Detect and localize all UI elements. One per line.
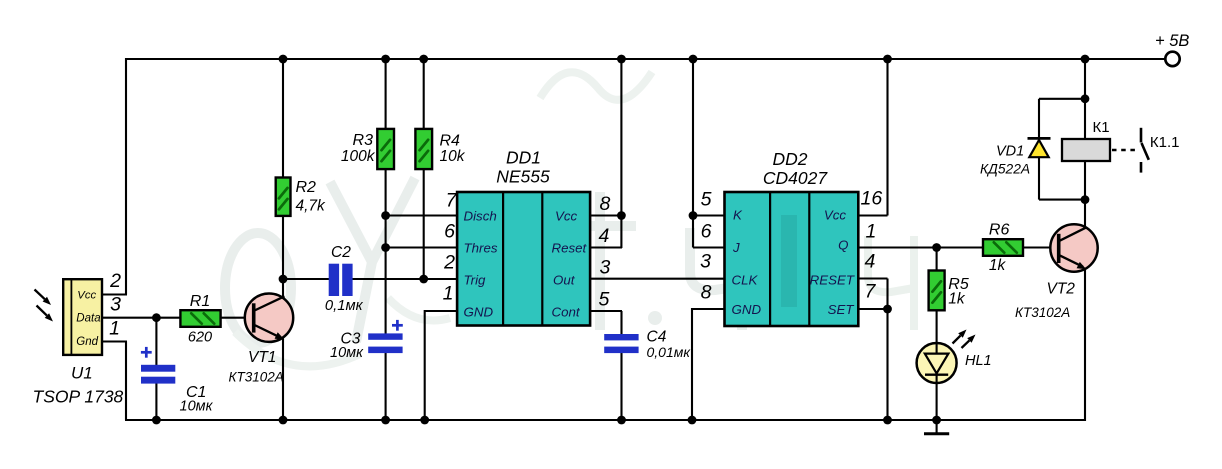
svg-text:0,1мк: 0,1мк [325,298,364,314]
node JK riser top [689,55,698,64]
svg-text:K: K [733,208,743,223]
svg-text:Disch: Disch [464,209,497,224]
svg-text:8: 8 [600,193,611,215]
node U1 data / C1 [152,313,161,322]
svg-text:7: 7 [865,281,877,303]
node C1 / ground rail [152,416,161,425]
svg-text:DD2: DD2 [772,149,807,169]
LED HL1 [917,310,992,383]
resistor R2 4.7k [276,58,326,280]
svg-text:3: 3 [700,251,711,273]
svg-text:J: J [732,240,740,255]
relay contact K1.1 [1112,128,1179,173]
IC DD2 CD4027 [725,149,859,326]
svg-text:5: 5 [599,288,610,310]
node R3 / pin6 [381,243,390,252]
svg-text:Gnd: Gnd [76,336,98,348]
svg-text:SET: SET [828,302,855,317]
svg-text:R3: R3 [353,132,374,149]
capacitor C3 10uF [330,320,403,420]
svg-text:6: 6 [444,221,455,243]
wire J-K tie to top rail [693,58,725,248]
wire pin4 Reset [590,246,622,248]
svg-text:8: 8 [701,282,712,304]
IC DD1 NE555 [457,148,590,326]
svg-text:TSOP 1738: TSOP 1738 [33,386,124,406]
node diode bottom branch [1081,195,1090,204]
svg-text:3: 3 [110,294,121,316]
node pin8/pin4 tie [617,211,626,220]
svg-text:VT2: VT2 [1047,281,1076,298]
capacitor C4 0.01uF [604,329,691,421]
svg-text:2: 2 [443,252,455,274]
node K pin tie [689,211,698,220]
wire left vertical to U1 Vcc [125,58,127,295]
transistor VT2 KT3102A [1015,224,1098,320]
svg-text:4: 4 [865,251,876,273]
svg-text:RESET: RESET [810,273,855,288]
svg-text:NE555: NE555 [496,167,550,187]
wire Out to CLK [590,278,725,280]
svg-text:7: 7 [446,190,458,212]
wire U1 Vcc stub [102,293,127,295]
wire pin6 Thres [386,246,458,248]
resistor R1 620 [180,293,220,345]
wire VT2 emitter down [1084,269,1086,422]
capacitor C1 10uF [141,318,214,420]
node DD2 gnd / rail [688,416,697,425]
node Vcc16 / top rail [883,55,892,64]
node DD1 gnd / rail [420,416,429,425]
node R3 / top rail [381,55,390,64]
wire R1 to VT1 base [221,317,253,319]
svg-text:Trig: Trig [464,273,487,288]
wire U1 Data to R1 [102,317,181,319]
svg-text:1: 1 [109,318,120,340]
IR rays arrows [35,290,54,322]
svg-text:Thres: Thres [464,241,498,256]
node DD1 vcc riser top [617,55,626,64]
node HL1 / rail [932,416,941,425]
wire VT2 collector up [1084,200,1086,228]
svg-text:Vcc: Vcc [824,208,847,223]
svg-text:GND: GND [464,305,494,320]
svg-text:C2: C2 [331,244,351,261]
node reset-set / rail [883,416,892,425]
node C4 / rail [617,416,626,425]
svg-text:R6: R6 [989,222,1010,239]
svg-text:Out: Out [553,273,576,288]
svg-text:КД522А: КД522А [980,162,1030,177]
node R3 / pin7 [381,211,390,220]
svg-text:1k: 1k [948,291,966,308]
svg-text:Q: Q [838,238,848,253]
svg-text:5: 5 [701,189,712,211]
resistor R3 100k [341,58,394,335]
svg-text:Vcc: Vcc [77,289,96,301]
resistor R6 1k [983,222,1023,274]
svg-text:DD1: DD1 [506,148,541,168]
svg-text:VD1: VD1 [996,144,1024,160]
wire +5V top rail [126,58,1165,60]
wire relay riser [1084,58,1086,200]
wire Q output to R6 [858,246,984,248]
svg-text:100k: 100k [341,148,376,165]
svg-text:10k: 10k [440,148,466,165]
svg-text:0,01мк: 0,01мк [647,344,692,360]
svg-text:К1: К1 [1093,119,1110,136]
node VT1 emitter / rail [279,416,288,425]
svg-text:Reset: Reset [552,241,588,256]
svg-text:2: 2 [109,270,121,292]
svg-text:10мк: 10мк [180,399,214,415]
wire pin8 Vcc to rail [590,58,621,248]
terminal +5V [1155,32,1189,66]
svg-text:VT1: VT1 [248,349,276,366]
ground symbol [924,420,949,434]
svg-text:16: 16 [861,188,883,210]
svg-text:КТ3102А: КТ3102А [229,370,284,385]
svg-text:К1.1: К1.1 [1150,134,1180,151]
diode VD1 KD522A [980,99,1085,200]
svg-text:+ 5В: + 5В [1155,32,1189,50]
node reset/set tie [883,305,892,314]
wire pin16 Vcc riser [858,58,888,216]
svg-text:6: 6 [701,221,712,243]
svg-text:GND: GND [732,302,762,317]
svg-text:CD4027: CD4027 [763,168,828,188]
node relay riser / top rail [1081,55,1090,64]
wire R6 to VT2 base [1023,246,1058,248]
svg-text:U1: U1 [71,363,93,382]
node diode top branch [1081,94,1090,103]
node VT1 collector / C2 [279,275,288,284]
IC U1 TSOP1738 IR receiver [63,279,102,355]
svg-text:3: 3 [600,257,611,279]
node Q / R5 [932,243,941,252]
transistor VT1 KT3102A [229,294,294,385]
resistor R4 10k [415,58,465,279]
svg-text:R1: R1 [190,293,210,310]
capacitor C2 0.1uF [283,244,458,314]
node R2 / top rail [279,55,288,64]
wire VT1 collector up [282,279,284,298]
svg-text:620: 620 [188,329,212,345]
wire U1 Gnd down to rail [102,342,127,421]
wire pin7 Disch [386,214,458,216]
wire pin5 Cont to C4 [590,311,622,335]
wire RESET-SET down to rail [858,279,888,421]
node C3 / rail [381,416,390,425]
wire VT1 emitter down [282,339,284,421]
wire DD2 GND down [692,308,725,420]
svg-text:10мк: 10мк [330,345,364,361]
svg-text:R2: R2 [296,179,317,196]
node R4 / trigger wire [419,275,428,284]
svg-text:Data: Data [76,312,100,324]
wire pin1 GND of DD1 [425,310,458,420]
svg-text:1: 1 [866,221,877,243]
svg-text:Cont: Cont [552,305,581,320]
svg-text:1: 1 [443,283,454,305]
svg-text:4,7k: 4,7k [296,198,327,215]
wire HL1 to rail [936,383,938,421]
relay coil K1 [1062,119,1110,161]
wire ground bottom rail [125,419,1086,421]
svg-text:CLK: CLK [732,273,759,288]
svg-text:Vcc: Vcc [555,209,578,224]
svg-text:HL1: HL1 [965,353,992,369]
svg-text:1k: 1k [989,257,1007,274]
svg-text:КТ3102А: КТ3102А [1015,305,1070,320]
node R4 / top rail [419,55,428,64]
svg-text:4: 4 [599,225,610,247]
resistor R5 1k [929,248,969,311]
